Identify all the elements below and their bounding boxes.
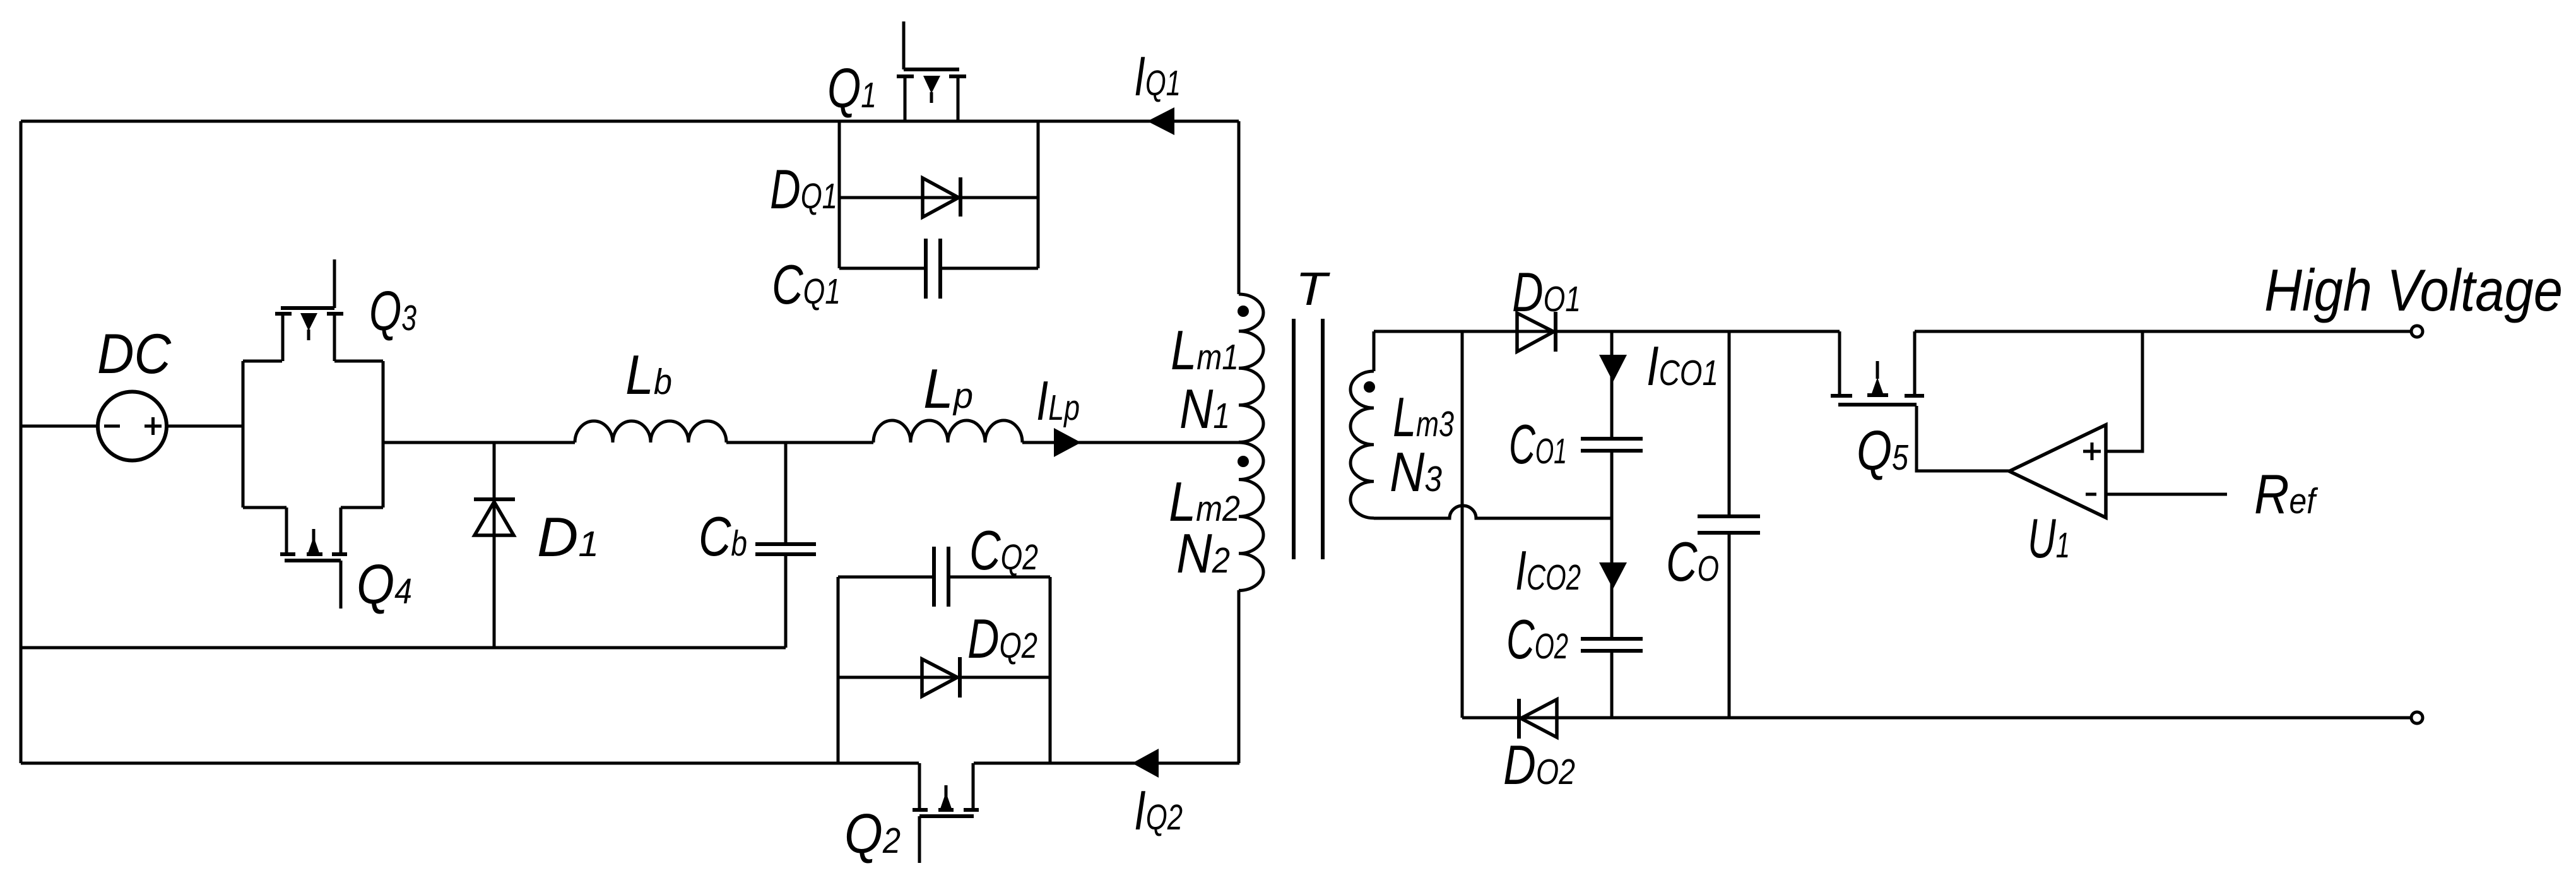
wire bottom output rail [1462,716,2411,720]
diode DQ1 [839,177,1038,217]
svg-text:DC: DC [97,322,172,385]
wire negative branch riser [1461,331,1464,718]
transistor Q2 [913,763,979,863]
diode DO2 [1519,699,1557,739]
inductor Lb [575,421,726,442]
diode DO1 [1517,312,1556,352]
transistor Q4 [280,508,347,609]
transistor Q1 [897,21,966,121]
wire bottom rail lower [21,762,1239,765]
terminal high voltage output [2411,326,2423,337]
arrow ILp [1054,428,1081,457]
arrow ICO2 [1599,562,1627,589]
wire left border [20,121,23,763]
wire op-amp + input feedback riser [2106,331,2142,451]
arrow ICO1 [1599,355,1627,382]
transistor Q5 [1831,331,1924,405]
wire high voltage rail [1915,330,2411,333]
wire bridge output to transformer [383,441,1239,444]
wire Q5 gate from op-amp output [1917,406,2009,471]
capacitor CQ2 [838,547,1050,607]
node dot N2 [1238,456,1249,467]
wire op-amp - input to Ref [2106,493,2227,496]
capacitor CO [1698,331,1760,718]
inductor Lp [873,420,1022,442]
arrow IQ1 [1147,107,1174,135]
diode D1 [474,442,515,648]
node dot N3 [1364,381,1375,393]
svg-text:T: T [1296,263,1330,315]
terminal return output [2411,712,2423,723]
transformer core [1294,319,1323,559]
diode DQ2 [838,657,1050,698]
capacitor CQ1 [839,239,1038,299]
node Q1 snubber box [839,121,1038,268]
wire bottom rail upper (D1/Cb return) [21,646,786,650]
capacitor Cb [755,442,816,648]
svg-text:High Voltage: High Voltage [2264,257,2563,323]
wire secondary bottom to doubler midpoint (with hop) [1374,506,1612,518]
node dot N1 [1238,306,1249,317]
op-amp U1 [2009,425,2106,518]
wire secondary top rail [1374,330,1840,333]
wire DC source feed [21,425,243,428]
node Q2 snubber box [838,577,1050,763]
wire doubler column [1610,331,1614,718]
winding Lm3/N3 secondary [1350,331,1374,518]
winding Lm2/N2 primary lower [1239,442,1263,763]
wire top rail [21,120,1239,123]
capacitor CO1 [1581,439,1643,451]
arrow IQ2 [1132,749,1159,778]
transistor Q3 [275,259,343,361]
source DC [98,392,167,461]
capacitor CO2 [1581,639,1643,651]
node Q3/Q4 half-bridge box [243,361,383,508]
winding Lm1/N1 primary upper [1239,121,1263,442]
